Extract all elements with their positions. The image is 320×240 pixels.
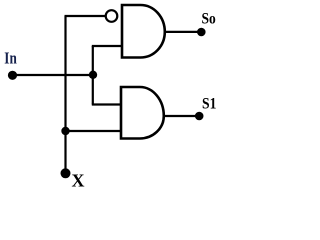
wire In horizontal <box>12 74 93 76</box>
junction dot In branch <box>89 71 97 79</box>
wire X branch to bottom gate input 2 <box>66 130 122 132</box>
wire output bottom gate <box>162 115 199 117</box>
wire X vertical <box>64 16 66 173</box>
wire output top gate <box>163 31 201 33</box>
wire junction vertical (In branch) <box>92 46 94 105</box>
node S1 terminal dot <box>195 112 204 121</box>
svg-text:So: So <box>202 9 216 28</box>
node In terminal dot <box>8 71 17 80</box>
AND gate U1 (top, with inverted input) <box>122 5 165 58</box>
svg-text:S1: S1 <box>202 94 216 113</box>
inverter bubble on U1 input 1 <box>106 10 118 22</box>
junction dot X branch <box>61 127 69 135</box>
node X terminal dot <box>61 168 71 178</box>
AND gate U2 (bottom) <box>121 87 164 139</box>
wire to bottom gate input 1 <box>92 103 121 105</box>
wire to top gate input 2 <box>92 45 122 47</box>
svg-text:In: In <box>4 49 17 68</box>
node So terminal dot <box>197 28 206 37</box>
wire X to inverter bubble <box>65 15 107 17</box>
svg-text:X: X <box>72 171 85 189</box>
